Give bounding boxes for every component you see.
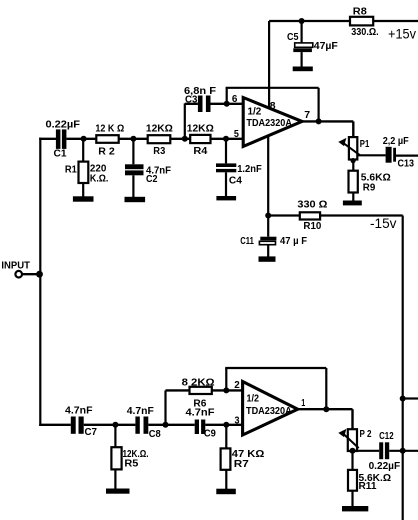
svg-text:K.Ω.: K.Ω. <box>90 173 109 184</box>
svg-text:INPUT: INPUT <box>1 261 30 272</box>
svg-text:4.7nF: 4.7nF <box>186 408 215 419</box>
capacitor C8 <box>135 417 148 434</box>
ground R1 <box>73 196 94 201</box>
potentiometer P2 <box>338 429 358 451</box>
svg-text:R9: R9 <box>363 183 376 194</box>
svg-text:R5: R5 <box>124 459 138 470</box>
svg-text:47 µ F: 47 µ F <box>280 236 307 247</box>
svg-text:2,2 µF: 2,2 µF <box>383 136 409 147</box>
label U1 name <box>246 107 292 130</box>
node rail stub junction <box>400 396 406 402</box>
svg-text:1.2nF: 1.2nF <box>237 164 262 175</box>
ground C4 <box>216 196 236 200</box>
resistor R2 <box>96 135 118 143</box>
svg-text:R4: R4 <box>193 146 207 157</box>
svg-text:1: 1 <box>301 398 305 409</box>
wire C12 out <box>389 450 418 452</box>
svg-text:R8: R8 <box>353 7 367 18</box>
svg-text:3: 3 <box>235 415 240 426</box>
wire top main line <box>39 138 56 140</box>
svg-text:12KΩ: 12KΩ <box>187 124 214 135</box>
wire C7 to C8 <box>84 424 136 426</box>
capacitor C4 <box>216 139 236 197</box>
svg-text:330 Ω: 330 Ω <box>297 200 327 211</box>
node R5 junction <box>112 422 118 428</box>
capacitor C11 <box>259 216 276 258</box>
node pin2 feedback junction <box>223 387 229 393</box>
node C5 junction <box>299 18 305 24</box>
svg-text:C7: C7 <box>85 427 98 438</box>
capacitor C12 <box>379 442 389 459</box>
capacitor C2 <box>125 139 144 198</box>
svg-text:C1: C1 <box>54 148 67 159</box>
svg-text:+15v: +15v <box>388 26 416 41</box>
node R10 C11 junction <box>265 213 271 219</box>
svg-text:C8: C8 <box>149 429 161 440</box>
wire C13 out <box>396 155 418 157</box>
wire C3 branch up <box>185 103 198 138</box>
svg-text:R3: R3 <box>153 146 165 157</box>
label R1 value <box>90 164 109 185</box>
svg-text:2: 2 <box>234 380 240 391</box>
resistor R3 <box>148 135 171 143</box>
wire U2 feedback loop <box>225 368 326 409</box>
resistor R7 <box>221 425 231 490</box>
svg-text:330.Ω.: 330.Ω. <box>351 27 379 38</box>
capacitor C1 <box>56 129 67 149</box>
node input bus junction <box>36 271 43 278</box>
node C3 branch junction <box>182 136 188 142</box>
resistor R10 <box>300 212 320 219</box>
svg-text:4.7nF: 4.7nF <box>65 406 93 417</box>
svg-text:1/2: 1/2 <box>248 107 262 118</box>
svg-text:C13: C13 <box>398 159 415 170</box>
wire U1 feedback loop <box>226 88 319 122</box>
ground R7 <box>216 489 236 495</box>
wire pin6 line <box>211 103 244 105</box>
resistor R9 <box>349 160 358 202</box>
svg-text:0.22µF: 0.22µF <box>369 461 401 472</box>
svg-text:C12: C12 <box>379 431 394 442</box>
node U1 output junction <box>316 118 322 124</box>
wire bottom main line <box>39 424 71 426</box>
svg-text:12 K Ω: 12 K Ω <box>95 124 124 135</box>
node P2 bottom junction <box>350 448 356 454</box>
svg-text:P 2: P 2 <box>360 429 372 440</box>
wire P2 to C12 <box>353 450 380 452</box>
svg-text:R7: R7 <box>234 459 249 470</box>
op-amp U2 <box>243 382 298 436</box>
svg-text:C11: C11 <box>240 236 254 247</box>
wire R6 branch <box>166 390 190 424</box>
ground R9 <box>343 201 362 206</box>
svg-text:C3: C3 <box>185 94 198 105</box>
svg-text:C4: C4 <box>229 175 242 186</box>
svg-text:TDA2320A: TDA2320A <box>246 118 292 129</box>
wire P1 wiper to C13 <box>357 154 385 156</box>
ground C11 <box>259 256 276 261</box>
node P1 bottom junction <box>351 158 356 163</box>
svg-text:4.7nF: 4.7nF <box>127 406 154 417</box>
ground C2 <box>125 197 146 202</box>
ground C5 <box>293 67 313 72</box>
capacitor C13 <box>386 147 396 163</box>
node R7 junction <box>223 422 229 428</box>
resistor R1 <box>79 139 89 198</box>
svg-text:R 2: R 2 <box>98 146 115 157</box>
svg-text:1/2: 1/2 <box>247 394 260 405</box>
wire C1 to R2 <box>66 138 96 140</box>
node feedback pin6 junction <box>224 101 230 107</box>
ground R5 <box>106 489 130 494</box>
svg-text:P1: P1 <box>360 139 370 150</box>
svg-text:C2: C2 <box>146 174 158 185</box>
resistor R11 <box>348 451 357 508</box>
resistor R6 <box>190 387 212 394</box>
wire +15v rail <box>269 20 418 22</box>
svg-text:R10: R10 <box>303 221 321 232</box>
wire -15v rail vertical <box>402 216 404 520</box>
svg-text:-15v: -15v <box>370 216 397 231</box>
resistor R8 <box>350 17 373 26</box>
svg-text:R1: R1 <box>65 165 77 176</box>
resistor R5 <box>111 425 121 490</box>
node INPUT terminal <box>15 271 40 278</box>
svg-text:6: 6 <box>232 94 238 105</box>
node C2 top junction <box>130 136 136 142</box>
wire U1 pin4 supply <box>267 136 269 216</box>
wire input bus vertical <box>39 138 41 426</box>
wire C8 to C9 <box>148 424 194 426</box>
svg-text:0.22µF: 0.22µF <box>46 120 81 131</box>
wire R3 to R4 <box>170 138 193 140</box>
capacitor C5 <box>293 21 313 68</box>
node R1 top junction <box>81 136 87 142</box>
svg-text:47µF: 47µF <box>314 41 338 52</box>
capacitor C7 <box>71 417 84 434</box>
wire U1 output <box>302 121 353 136</box>
potentiometer P1 <box>338 137 360 159</box>
node C4 pin5 junction <box>223 136 229 142</box>
wire R4 to pin5 <box>211 138 244 140</box>
op-amp U1 <box>243 98 302 147</box>
capacitor C9 <box>195 420 206 435</box>
svg-text:C9: C9 <box>204 429 216 440</box>
svg-text:8 2KΩ: 8 2KΩ <box>182 377 215 388</box>
label U2 name <box>246 394 292 417</box>
node U2 output junction <box>323 406 329 412</box>
svg-text:C5: C5 <box>287 32 299 43</box>
wire U1 pin8 supply <box>268 21 270 109</box>
ground R11 <box>342 506 368 511</box>
resistor R4 <box>190 135 210 143</box>
node R6 branch junction <box>163 422 169 428</box>
wire rail stub <box>403 397 418 399</box>
svg-text:7: 7 <box>304 110 310 121</box>
wire R10 line <box>268 214 403 216</box>
wire R6 to pin2 <box>212 389 243 391</box>
svg-text:TDA2320A: TDA2320A <box>246 406 292 417</box>
svg-text:R11: R11 <box>359 481 377 492</box>
wire C9 to pin3 <box>205 424 243 426</box>
node rail C12 crossing <box>400 448 406 454</box>
svg-text:8: 8 <box>270 101 276 112</box>
svg-text:5: 5 <box>234 129 239 140</box>
wire U2 output <box>298 409 353 430</box>
svg-text:12KΩ: 12KΩ <box>146 124 173 135</box>
wire R2 to R3 <box>119 138 148 140</box>
capacitor C3 <box>198 96 211 113</box>
